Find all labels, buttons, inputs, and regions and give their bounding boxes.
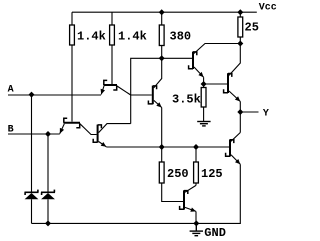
resistor R6 lead xyxy=(161,147,163,162)
resistor R6 body xyxy=(159,162,164,183)
node junction D1row xyxy=(159,55,165,61)
svg-text:25: 25 xyxy=(245,20,259,34)
resistor R5 lead xyxy=(203,84,205,88)
transistor Q1 collector xyxy=(117,86,131,95)
transistor Q7 schottky hook top xyxy=(184,191,188,194)
node junction D2-ground rail xyxy=(45,220,51,226)
transistor Q4 collector xyxy=(154,58,162,88)
node junction ground symbol xyxy=(193,220,199,226)
transistor Q8 schottky hook bottom xyxy=(226,153,230,156)
resistor R2 lead xyxy=(111,12,113,25)
wire ground rail xyxy=(32,164,241,223)
wire Vcc rail xyxy=(72,11,257,13)
wire Q5 emitter to R5 node xyxy=(203,77,205,84)
svg-text:3.5k: 3.5k xyxy=(172,93,201,107)
transistor Q3 emitter xyxy=(99,142,107,147)
wire A to diode D1 xyxy=(31,95,33,192)
wire R6 to Q7 base xyxy=(162,183,183,202)
wire D1 to ground rail xyxy=(31,199,33,223)
transistor Q2 collector xyxy=(80,124,97,135)
svg-text:Vcc: Vcc xyxy=(259,3,277,14)
wire node X vertical xyxy=(131,58,162,123)
wire R3 to node D1row xyxy=(161,46,163,59)
transistor Q8 emitter xyxy=(231,155,240,165)
wire Q5 emitter node to Q6 base xyxy=(204,83,227,85)
svg-text:125: 125 xyxy=(201,167,223,181)
wire Q6 emitter to Y node xyxy=(239,102,241,113)
transistor Q2 base bar xyxy=(64,122,81,124)
transistor Q7 emitter xyxy=(185,207,196,211)
node junction R5-Q6 base xyxy=(201,81,207,87)
ground mid symbol xyxy=(197,122,210,126)
wire Q3 emitter row to Q8 base xyxy=(106,146,229,148)
transistor Q4 base bar xyxy=(152,86,154,105)
transistor Q6 base bar xyxy=(227,73,229,93)
transistor Q7 schottky hook bottom xyxy=(180,206,184,209)
svg-text:GND: GND xyxy=(204,226,226,240)
transistor Q1 schottky hook left xyxy=(104,80,107,85)
transistor Q8 schottky hook top xyxy=(230,140,234,143)
transistor Q3 schottky hook bottom xyxy=(93,139,97,142)
resistor R7 body xyxy=(194,162,199,183)
resistor R5 body xyxy=(201,88,206,108)
diode D2 (input B clamp) xyxy=(41,190,55,200)
transistor Q5 schottky hook top xyxy=(193,52,197,55)
transistor Q1 schottky hook right xyxy=(113,85,116,90)
wire Q4 emitter to R6 node xyxy=(161,108,163,148)
wire Y output xyxy=(240,111,258,113)
wire Q7 emitter to ground node xyxy=(195,211,197,223)
transistor Q6 emitter xyxy=(229,91,240,102)
svg-text:A: A xyxy=(8,85,14,96)
transistor Q2 schottky hook right xyxy=(76,123,79,128)
svg-text:Y: Y xyxy=(263,108,269,119)
wire D1row to Q5 base xyxy=(162,57,192,59)
resistor R3 lead xyxy=(161,12,163,25)
transistor Q8 base bar xyxy=(229,139,231,156)
wire input A xyxy=(8,94,101,96)
transistor Q4 schottky hook bottom xyxy=(148,101,152,104)
resistor R1 body xyxy=(70,25,75,45)
ground bottom symbol xyxy=(190,223,203,235)
resistor R4 body xyxy=(238,17,243,37)
node junction rail-R3 xyxy=(159,9,165,15)
transistor Q4 emitter xyxy=(154,100,162,107)
node junction A-D1 xyxy=(29,92,35,98)
resistor R2 body xyxy=(110,25,115,45)
wire R7 to Q7 collector xyxy=(195,183,197,185)
transistor Q8 collector xyxy=(231,133,240,142)
node junction Y xyxy=(237,109,243,115)
svg-text:1.4k: 1.4k xyxy=(118,30,147,44)
svg-text:1.4k: 1.4k xyxy=(77,30,106,44)
transistor Q4 schottky hook top xyxy=(153,86,157,89)
wire R4 bottom xyxy=(239,37,241,44)
transistor Q5 collector xyxy=(194,44,240,54)
wire R2 to Q1 base xyxy=(111,45,113,84)
transistor Q5 base bar xyxy=(192,52,194,69)
transistor Q6 collector xyxy=(229,44,240,76)
node junction B-D2 xyxy=(45,131,51,137)
transistor Q5 schottky hook bottom xyxy=(189,65,193,68)
node junction R7 top xyxy=(193,144,199,150)
node junction rail-R4 xyxy=(237,9,243,15)
node junction R6 top xyxy=(159,144,165,150)
resistor R3 body xyxy=(159,25,164,46)
transistor Q6 schottky hook bottom xyxy=(224,89,228,92)
transistor Q3 base bar xyxy=(97,125,99,143)
transistor Q7 base bar xyxy=(183,190,185,209)
wire D2 to ground rail xyxy=(47,199,49,223)
resistor R7 lead xyxy=(195,147,197,162)
resistor R4 lead xyxy=(239,12,241,17)
transistor Q2 emitter xyxy=(60,124,65,134)
transistor Q3 collector xyxy=(99,124,131,133)
transistor Q6 schottky hook top xyxy=(228,74,232,77)
wire R1 to Q2 base xyxy=(71,45,73,122)
transistor Q1 emitter xyxy=(101,86,104,95)
wire B to diode D2 xyxy=(47,134,49,192)
wire R5 to ground xyxy=(203,107,205,121)
wire Y node to Q8 collector xyxy=(239,112,241,133)
transistor Q1 base bar xyxy=(104,84,118,86)
transistor Q3 schottky hook top xyxy=(98,125,102,128)
transistor Q7 collector xyxy=(185,185,196,192)
wire node X to Q4 base xyxy=(131,94,152,96)
svg-text:250: 250 xyxy=(167,167,189,181)
transistor Q2 schottky hook left xyxy=(64,118,67,123)
wire input B xyxy=(8,133,60,135)
svg-text:380: 380 xyxy=(170,30,192,44)
transistor Q5 emitter xyxy=(194,67,204,77)
node junction R4-Q6 collector xyxy=(237,41,243,47)
resistor R1 lead xyxy=(71,12,73,25)
diode D1 (input A clamp) xyxy=(25,190,39,200)
